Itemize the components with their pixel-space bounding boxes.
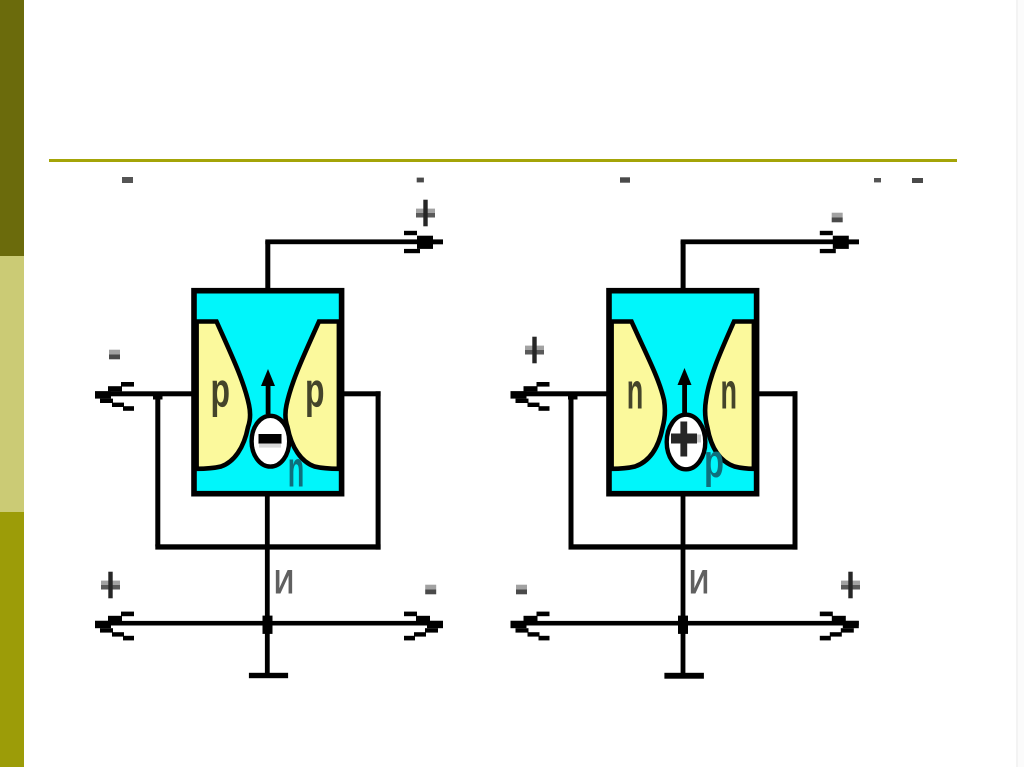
- wire: loop bottom horizontal: [155, 544, 380, 549]
- ground bar: [664, 673, 704, 679]
- label + (gate): [525, 337, 544, 364]
- svg-text:n: n: [721, 363, 738, 420]
- wire: loop bottom horizontal: [569, 544, 798, 549]
- wire: loop right vertical: [376, 391, 381, 549]
- mark 4: [874, 178, 881, 182]
- svg-text:p: p: [704, 434, 724, 487]
- plus inside circle: [671, 434, 697, 444]
- node: gate junction: [153, 394, 163, 400]
- svg-text:p: p: [305, 364, 325, 418]
- carrier circle (hole): [667, 415, 706, 470]
- node: source junction: [678, 616, 688, 634]
- bottom arrow right: [820, 612, 859, 641]
- label + (bottom left): [101, 572, 120, 599]
- left sidebar stripe: dark olive top third: [0, 0, 24, 256]
- svg-text:И: И: [274, 564, 294, 602]
- wire: drain vertical (top lead): [265, 241, 270, 291]
- gate arrowhead (left): [95, 382, 134, 411]
- label - (bottom right): [425, 585, 436, 595]
- wire: gate horizontal left lead: [95, 391, 192, 396]
- svg-text:n: n: [627, 363, 644, 420]
- wire: gate stub right of body: [756, 391, 798, 396]
- wire: drain vertical (top lead): [681, 241, 686, 291]
- right edge light strip: [1016, 0, 1018, 767]
- node: source junction: [263, 616, 273, 634]
- wire: source vertical (bottom lead): [681, 493, 686, 674]
- label - (bottom left): [516, 585, 527, 595]
- wire: drain horizontal to arrow: [265, 239, 443, 244]
- carrier circle (electron): [252, 416, 290, 467]
- p region left (yellow): [197, 322, 250, 469]
- transistor body outline (cyan): [609, 291, 757, 494]
- wire: bottom bidirectional line: [511, 621, 859, 626]
- mark 3: [620, 177, 630, 182]
- p region right (yellow): [285, 322, 338, 469]
- channel arrow up: [678, 368, 692, 385]
- title rule line: [49, 159, 957, 162]
- wire: loop left vertical: [569, 394, 574, 547]
- n region right (yellow): [705, 322, 754, 469]
- mark 1: [122, 177, 133, 183]
- wire: loop left vertical: [155, 394, 160, 547]
- drain arrow (right): [404, 231, 443, 253]
- transistor body outline (cyan): [194, 291, 342, 494]
- mark 2: [417, 178, 424, 183]
- node: gate junction: [568, 394, 578, 400]
- ground bar: [249, 673, 288, 678]
- wire: source vertical (bottom lead): [265, 493, 270, 674]
- label - (gate): [109, 350, 120, 360]
- minus inside circle: [259, 434, 282, 444]
- channel arrow up: [261, 369, 275, 386]
- bottom arrow right: [404, 612, 443, 641]
- label - (drain): [832, 213, 843, 223]
- bottom arrow left: [511, 612, 550, 641]
- wire: bottom bidirectional line: [95, 621, 443, 626]
- wire: drain horizontal to arrow: [681, 239, 859, 244]
- label + (drain): [416, 200, 435, 227]
- n region left (yellow): [612, 322, 665, 469]
- wire: gate horizontal left lead: [511, 391, 608, 396]
- gate arrowhead (left): [511, 382, 550, 411]
- svg-text:И: И: [689, 564, 709, 602]
- svg-text:p: p: [211, 364, 231, 418]
- drain arrow (right): [820, 231, 859, 253]
- wire: loop right vertical: [793, 391, 798, 549]
- wire: gate stub right of body: [341, 391, 381, 396]
- bottom arrow left: [95, 612, 134, 641]
- mark 5: [912, 178, 923, 183]
- left sidebar stripe: khaki middle third: [0, 256, 24, 512]
- left sidebar stripe: olive bottom third: [0, 512, 24, 767]
- svg-text:n: n: [288, 441, 305, 498]
- label + (bottom right): [841, 572, 860, 599]
